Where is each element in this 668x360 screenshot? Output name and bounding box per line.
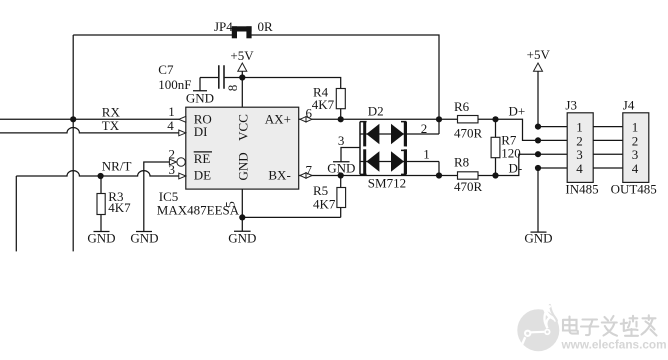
wire D+ jog to connector bus xyxy=(496,119,539,140)
label R6 value xyxy=(454,99,483,140)
svg-text:2: 2 xyxy=(421,121,428,136)
resistor R8 xyxy=(458,172,496,179)
svg-text:120: 120 xyxy=(501,146,521,161)
node RX junction xyxy=(70,116,76,122)
svg-text:R6: R6 xyxy=(454,99,470,114)
svg-text:1: 1 xyxy=(576,120,583,135)
IC IC5 MAX487EESA body xyxy=(186,107,299,189)
svg-text:DE: DE xyxy=(194,167,211,182)
label R7 value xyxy=(501,133,521,161)
watermark logo circle xyxy=(517,305,559,351)
svg-text:GND: GND xyxy=(327,160,355,175)
wire RE enable to ground xyxy=(144,162,169,232)
svg-text:GND: GND xyxy=(236,152,251,180)
label R4 value xyxy=(312,84,335,112)
svg-text:4K7: 4K7 xyxy=(108,200,131,215)
label JP4 xyxy=(214,19,233,34)
node connector pin2 junction xyxy=(535,137,541,143)
svg-text:TX: TX xyxy=(102,118,120,133)
svg-text:0R: 0R xyxy=(258,19,274,34)
resistor R5 xyxy=(337,176,346,218)
wire BX- net to R8 xyxy=(299,175,458,177)
node R8 right junction xyxy=(492,172,498,178)
jumper JP4 xyxy=(232,26,252,38)
label C7 xyxy=(158,62,191,92)
label SM712 xyxy=(368,176,406,191)
wire top rail from left vertical to JP4 xyxy=(73,34,233,36)
svg-text:2: 2 xyxy=(632,133,639,148)
svg-text:GND: GND xyxy=(130,231,158,246)
svg-text:www.elecfans.com: www.elecfans.com xyxy=(561,337,667,351)
svg-text:GND: GND xyxy=(87,231,115,246)
resistor 0R label xyxy=(258,19,274,34)
node connector pin4 junction xyxy=(535,165,541,171)
svg-text:J4: J4 xyxy=(623,97,635,112)
node IC ground junction xyxy=(239,214,245,220)
svg-text:GND: GND xyxy=(228,230,256,245)
node R5 junction xyxy=(338,172,344,178)
pin 8 VCC xyxy=(225,85,240,92)
ground R3 xyxy=(87,231,115,246)
node NR/T junction xyxy=(98,173,104,179)
svg-text:+5V: +5V xyxy=(230,48,254,63)
svg-text:470R: 470R xyxy=(454,179,483,194)
svg-text:IN485: IN485 xyxy=(565,182,598,197)
pin 4 DI arrow xyxy=(167,118,186,136)
diode array D2 SM712 xyxy=(360,122,439,175)
wire AX+ net to R6 xyxy=(299,118,458,120)
svg-text:D2: D2 xyxy=(368,103,384,118)
label OUT485 xyxy=(611,182,657,197)
pin 6 AX+ bidirectional arrow xyxy=(300,106,313,123)
svg-text:SM712: SM712 xyxy=(368,176,406,191)
svg-text:3: 3 xyxy=(338,133,345,148)
svg-text:7: 7 xyxy=(306,162,313,177)
svg-text:1: 1 xyxy=(168,104,175,119)
label R8 value xyxy=(454,154,483,194)
capacitor C7 xyxy=(200,65,242,89)
pin 7 BX- bidirectional arrow xyxy=(300,162,313,178)
wire top rail from JP4 to right drop xyxy=(251,35,439,119)
svg-text:3: 3 xyxy=(576,147,583,162)
pin 2 RE arrow with circle xyxy=(169,146,186,166)
label VCC rotated xyxy=(236,114,251,141)
svg-text:470R: 470R xyxy=(454,125,483,140)
svg-text:5: 5 xyxy=(223,201,238,208)
svg-text:BX-: BX- xyxy=(268,167,290,182)
node connector pin1 junction xyxy=(535,124,541,130)
label DI xyxy=(194,124,208,139)
svg-text:2: 2 xyxy=(576,133,583,148)
ground C7 xyxy=(186,78,214,106)
wire D- jog to connector bus xyxy=(496,154,539,175)
svg-text:R8: R8 xyxy=(454,154,469,169)
label D+ xyxy=(509,103,526,118)
wire NR/T left drop xyxy=(15,176,17,251)
svg-text:4K7: 4K7 xyxy=(313,197,336,212)
power +5V at connector xyxy=(527,47,551,127)
svg-text:J3: J3 xyxy=(565,97,577,112)
label D- xyxy=(509,160,523,175)
svg-text:GND: GND xyxy=(186,90,214,105)
ground connector xyxy=(524,231,552,246)
svg-text:4: 4 xyxy=(167,118,174,133)
svg-text:D-: D- xyxy=(509,160,523,175)
resistor R3 xyxy=(97,176,105,232)
pin 3 DE arrow xyxy=(169,162,186,179)
label IN485 xyxy=(565,182,598,197)
svg-text:1: 1 xyxy=(632,120,639,135)
label AX+ xyxy=(265,112,291,127)
svg-text:VCC: VCC xyxy=(236,114,251,141)
label RX xyxy=(102,105,121,120)
svg-text:+5V: +5V xyxy=(527,47,551,62)
label TX xyxy=(102,118,120,133)
svg-text:8: 8 xyxy=(225,85,240,92)
resistor R7 xyxy=(491,119,500,175)
svg-text:OUT485: OUT485 xyxy=(611,182,657,197)
wire RX line xyxy=(0,118,179,120)
pin 1 RO arrow xyxy=(168,104,186,122)
svg-text:3: 3 xyxy=(169,162,176,177)
node +5V junction xyxy=(239,74,245,80)
label R3 value xyxy=(108,189,131,215)
ground IC5 xyxy=(228,217,256,245)
node R6 right junction xyxy=(492,116,498,122)
label R5 value xyxy=(313,183,336,212)
svg-text:GND: GND xyxy=(524,231,552,246)
resistor R4 xyxy=(336,89,345,120)
ground D2 xyxy=(327,160,355,175)
label MAX487EESA xyxy=(157,202,240,217)
svg-text:D+: D+ xyxy=(509,103,526,118)
wire TX line with hop xyxy=(0,127,179,132)
label BX- xyxy=(268,167,290,182)
wire J3 to J4 links xyxy=(593,127,623,168)
svg-text:3: 3 xyxy=(632,147,639,162)
watermark text chinese xyxy=(563,315,657,336)
wire ground stem connector xyxy=(537,168,539,232)
svg-text:4: 4 xyxy=(576,161,583,176)
power +5V at IC xyxy=(230,48,254,78)
pin 5 GND rotated xyxy=(223,201,238,208)
wire IC ground rail xyxy=(242,189,340,217)
svg-text:2: 2 xyxy=(169,146,176,161)
label IC5 xyxy=(159,189,179,204)
node D2 top junction xyxy=(436,116,442,122)
label NR/T xyxy=(102,159,132,174)
wire NR/T line with two hops xyxy=(16,171,179,176)
svg-text:4K7: 4K7 xyxy=(312,97,335,112)
svg-text:4: 4 xyxy=(632,161,639,176)
svg-text:NR/T: NR/T xyxy=(102,159,132,174)
svg-text:AX+: AX+ xyxy=(265,112,291,127)
wire left vertical bus xyxy=(72,35,74,251)
label GND rotated xyxy=(236,152,251,180)
ground RE xyxy=(130,231,158,246)
svg-text:C7: C7 xyxy=(158,62,174,77)
label D2 xyxy=(368,103,384,118)
node connector pin3 junction xyxy=(535,151,541,157)
wire +5V rail to R4 xyxy=(242,78,340,89)
svg-text:1: 1 xyxy=(423,146,430,161)
label DE xyxy=(194,167,211,182)
pin 1 D2 wire down to D- net xyxy=(423,146,439,175)
svg-text:DI: DI xyxy=(194,124,208,139)
label J4 xyxy=(623,97,635,112)
label J3 xyxy=(565,97,577,112)
connector J3 xyxy=(567,113,593,183)
pin 3 D2 wire to ground xyxy=(338,133,360,162)
label RO xyxy=(194,112,212,127)
label RE xyxy=(194,151,212,166)
pin 2 D2 wire up to D+ net xyxy=(421,119,439,136)
watermark text url xyxy=(561,337,667,351)
connector J4 xyxy=(623,113,649,183)
svg-text:JP4: JP4 xyxy=(214,19,233,34)
resistor R6 xyxy=(458,116,496,123)
wire VCC stem xyxy=(241,78,243,108)
node D2 bottom junction xyxy=(436,172,442,178)
node R4 junction xyxy=(338,116,344,122)
wire connector stubs J3 xyxy=(538,127,567,168)
svg-text:RE: RE xyxy=(194,151,211,166)
